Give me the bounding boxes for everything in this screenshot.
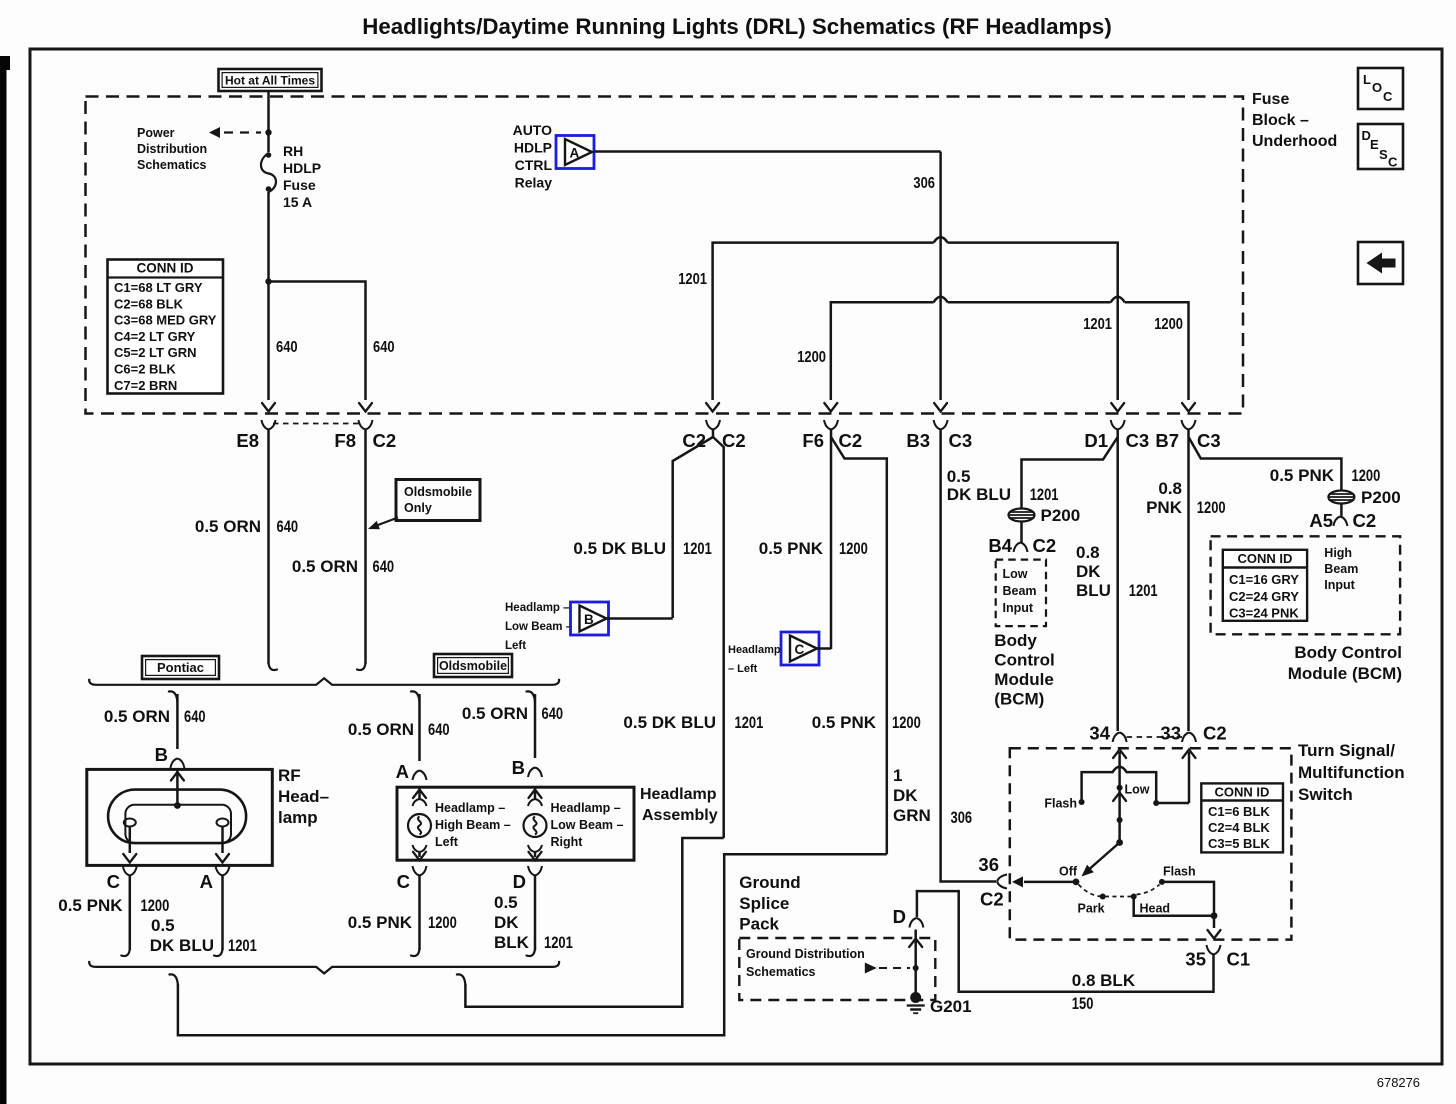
svg-text:0.5 ORN: 0.5 ORN bbox=[462, 704, 528, 723]
svg-text:1201: 1201 bbox=[1129, 581, 1158, 600]
svg-text:Power: Power bbox=[137, 126, 175, 140]
splice P200 right bbox=[1328, 491, 1354, 504]
svg-text:0.8: 0.8 bbox=[1076, 543, 1100, 562]
svg-text:S: S bbox=[1379, 147, 1388, 162]
wire bus to B RF bbox=[169, 691, 178, 749]
arrow up pin 33 bbox=[1183, 750, 1196, 759]
RF headlamp inner shell bbox=[125, 805, 231, 843]
arrow down RF right bbox=[216, 854, 229, 863]
RF headlamp center node bbox=[174, 802, 181, 809]
svg-text:C2=24 GRY: C2=24 GRY bbox=[1229, 589, 1299, 604]
svg-text:Head–: Head– bbox=[278, 787, 329, 806]
svg-text:678276: 678276 bbox=[1377, 1076, 1420, 1090]
Low Beam Input dashed box bbox=[996, 560, 1046, 627]
svg-text:B7: B7 bbox=[1155, 430, 1179, 451]
connector D ground bbox=[893, 906, 924, 928]
svg-text:Low Beam –: Low Beam – bbox=[551, 818, 624, 832]
svg-text:1: 1 bbox=[893, 766, 902, 785]
svg-text:PNK: PNK bbox=[1146, 498, 1183, 517]
wire F6 down to triangle C bbox=[830, 430, 833, 650]
svg-text:1200: 1200 bbox=[1197, 498, 1226, 517]
arrow into B7 bbox=[1182, 403, 1195, 412]
arrow into F6 bbox=[824, 403, 837, 412]
signal triangle B headlamp low beam left bbox=[571, 602, 609, 635]
wire 306 B3 down to turn signal switch bbox=[941, 430, 996, 882]
label 0.5 DK BLU 1201 upper bbox=[573, 539, 711, 558]
svg-text:Ground: Ground bbox=[739, 873, 800, 892]
wire F6 split right branch bbox=[831, 437, 887, 854]
wire horizontal 1201 feed bbox=[713, 243, 1118, 400]
svg-text:640: 640 bbox=[373, 557, 395, 576]
svg-text:640: 640 bbox=[373, 339, 395, 356]
svg-text:D1: D1 bbox=[1084, 430, 1108, 451]
wire D assembly to bus bbox=[527, 876, 536, 957]
BCM dashed box right bbox=[1211, 536, 1401, 634]
label 0.8 DK BLU 1201 main bbox=[1076, 543, 1158, 600]
wire A RF to bus bbox=[214, 876, 223, 957]
CONN ID table fuse block bbox=[108, 260, 224, 394]
svg-text:P200: P200 bbox=[1361, 488, 1401, 507]
svg-text:0.5 PNK: 0.5 PNK bbox=[759, 539, 824, 558]
wire D1 to BCM low beam input bbox=[1022, 430, 1118, 510]
wire branch to F8 bbox=[269, 282, 366, 401]
svg-text:1200: 1200 bbox=[839, 539, 868, 558]
svg-text:Distribution: Distribution bbox=[137, 142, 207, 156]
svg-text:Low Beam –: Low Beam – bbox=[505, 621, 573, 633]
svg-text:C2: C2 bbox=[839, 430, 863, 451]
svg-text:F6: F6 bbox=[802, 430, 824, 451]
svg-text:C1=68 LT GRY: C1=68 LT GRY bbox=[114, 280, 203, 295]
svg-text:0.5: 0.5 bbox=[151, 916, 175, 935]
hop over 306 wire lower bbox=[934, 297, 948, 303]
splice P200 left bbox=[1009, 509, 1035, 522]
svg-text:C2: C2 bbox=[980, 889, 1004, 910]
svg-text:306: 306 bbox=[913, 175, 935, 192]
ground distribution dashed arrow bbox=[865, 963, 910, 974]
svg-text:C2: C2 bbox=[722, 430, 746, 451]
RF headlamp right terminal bbox=[217, 819, 229, 827]
wiper arm to Off bbox=[1082, 843, 1120, 877]
Oldsmobile label box bbox=[434, 654, 512, 677]
svg-text:Headlamp: Headlamp bbox=[728, 644, 781, 656]
connector B4 C2 bbox=[988, 535, 1056, 556]
svg-text:HDLP: HDLP bbox=[514, 140, 552, 156]
svg-text:Headlamp –: Headlamp – bbox=[435, 801, 505, 815]
ground G201 symbol bbox=[907, 992, 925, 1013]
connector D assembly bbox=[513, 866, 542, 892]
svg-text:Only: Only bbox=[404, 501, 432, 515]
low contact dot bbox=[1117, 785, 1123, 791]
label 0.5 PNK 1200 assembly bbox=[348, 913, 457, 932]
svg-text:Headlamp: Headlamp bbox=[640, 786, 717, 803]
svg-text:35: 35 bbox=[1185, 949, 1206, 970]
svg-text:0.5 ORN: 0.5 ORN bbox=[195, 517, 261, 536]
svg-text:Turn Signal/: Turn Signal/ bbox=[1298, 741, 1395, 760]
svg-text:A: A bbox=[200, 871, 213, 892]
svg-text:F8: F8 bbox=[334, 430, 356, 451]
svg-text:HDLP: HDLP bbox=[283, 160, 321, 176]
svg-text:L: L bbox=[1363, 72, 1371, 87]
svg-text:B: B bbox=[155, 744, 168, 765]
arrow down pin 35 bbox=[1208, 930, 1221, 939]
label Body Control Module left bbox=[994, 631, 1054, 709]
wire bus to B assembly bbox=[527, 691, 536, 758]
back arrow box icon bbox=[1358, 242, 1403, 284]
splice junction dot bbox=[913, 965, 919, 971]
CONN ID table BCM bbox=[1223, 550, 1307, 621]
relay triangle A bbox=[556, 136, 594, 169]
svg-text:Ground Distribution: Ground Distribution bbox=[746, 947, 865, 961]
svg-text:A5: A5 bbox=[1309, 510, 1333, 531]
Hot at All Times label box bbox=[219, 69, 322, 91]
svg-text:15 A: 15 A bbox=[283, 194, 312, 210]
connector A RF bbox=[200, 866, 230, 892]
bottom bus brace bbox=[89, 961, 559, 974]
svg-text:C3: C3 bbox=[949, 430, 973, 451]
off contact dot bbox=[1073, 879, 1080, 886]
label Fuse Block - Underhood bbox=[1252, 91, 1337, 150]
wire horizontal 1200 feed bbox=[831, 302, 1189, 400]
svg-text:Hot at All Times: Hot at All Times bbox=[225, 74, 315, 88]
bulb headlamp high beam left bbox=[418, 787, 421, 800]
wire P200 to B4 bbox=[1020, 521, 1023, 542]
svg-text:306: 306 bbox=[951, 808, 973, 827]
arrow into D1 bbox=[1111, 403, 1124, 412]
label 1 DK GRN bbox=[893, 766, 931, 825]
contact dot right bbox=[1153, 800, 1159, 806]
Pontiac label box bbox=[142, 656, 219, 679]
LOC box icon bbox=[1358, 68, 1403, 109]
svg-text:Beam: Beam bbox=[1003, 584, 1037, 598]
label 0.8 PNK 1200 main bbox=[1146, 479, 1226, 517]
CONN ID table switch bbox=[1201, 783, 1283, 852]
svg-text:CONN ID: CONN ID bbox=[1215, 785, 1270, 800]
svg-text:Underhood: Underhood bbox=[1252, 133, 1337, 150]
wire flash to junction bbox=[1162, 882, 1214, 928]
wire E8 to Pontiac bus bbox=[267, 430, 270, 665]
svg-text:Off: Off bbox=[1059, 865, 1078, 879]
curl E8 end bbox=[269, 663, 278, 670]
label RF Head-lamp bbox=[278, 766, 329, 827]
wire head to junction bbox=[1134, 897, 1214, 916]
wire C assembly to bus bbox=[411, 876, 420, 957]
ground splice pack dashed box bbox=[739, 938, 935, 1000]
svg-text:C1: C1 bbox=[1227, 949, 1251, 970]
svg-text:C2: C2 bbox=[1353, 510, 1377, 531]
svg-text:Pack: Pack bbox=[739, 915, 779, 934]
label 0.5 DK BLU 1201 RF bbox=[150, 916, 257, 955]
svg-text:– Left: – Left bbox=[728, 663, 758, 675]
connector F6 C2 bbox=[802, 420, 862, 451]
svg-text:D: D bbox=[893, 906, 906, 927]
wire D1 main down to pin 34 bbox=[1116, 437, 1119, 731]
label 0.5 PNK 1200 upper bbox=[759, 539, 868, 558]
svg-text:BLU: BLU bbox=[1076, 581, 1111, 600]
svg-text:1200: 1200 bbox=[892, 713, 921, 732]
svg-text:O: O bbox=[1372, 80, 1382, 95]
arrow up pin 34 bbox=[1113, 750, 1126, 759]
connector A assembly bbox=[396, 761, 427, 782]
connector 36 fork bbox=[997, 875, 1007, 889]
svg-text:(BCM): (BCM) bbox=[994, 690, 1044, 709]
connector D1 C3 bbox=[1084, 420, 1149, 451]
label 0.5 ORN 640 F8 bbox=[292, 557, 394, 576]
svg-text:C7=2 BRN: C7=2 BRN bbox=[114, 378, 177, 393]
svg-text:640: 640 bbox=[542, 704, 564, 723]
connector pin 33 bbox=[1160, 723, 1226, 744]
flash contact dot left bbox=[1079, 799, 1085, 805]
label 0.5 PNK 1200 RF bbox=[58, 896, 169, 915]
svg-text:Headlamp –: Headlamp – bbox=[551, 801, 621, 815]
svg-text:GRN: GRN bbox=[893, 806, 931, 825]
wire P200 to A5 bbox=[1340, 503, 1343, 516]
svg-text:D: D bbox=[513, 871, 526, 892]
wire 0.5 DK BLU return to oldsmobile bus bbox=[457, 838, 724, 1007]
label Turn Signal Multifunction Switch bbox=[1298, 741, 1405, 804]
arrow left into 36 bbox=[1012, 876, 1023, 887]
fuse block underhood dashed box bbox=[86, 97, 1244, 414]
svg-text:C: C bbox=[107, 871, 120, 892]
label 0.5 DK BLU 1201 return bbox=[623, 713, 763, 732]
svg-text:0.5 PNK: 0.5 PNK bbox=[348, 913, 413, 932]
svg-text:Input: Input bbox=[1003, 601, 1034, 615]
svg-text:DK BLU: DK BLU bbox=[947, 485, 1011, 504]
svg-text:Block –: Block – bbox=[1252, 112, 1309, 129]
RF headlamp outer shell bbox=[108, 790, 246, 844]
label 0.5 DK BLU 1201 bcm bbox=[947, 467, 1059, 504]
label 0.5 PNK 1200 return bbox=[812, 713, 921, 732]
svg-text:C2: C2 bbox=[373, 430, 397, 451]
scan edge black strip bbox=[0, 56, 7, 1104]
svg-text:640: 640 bbox=[276, 339, 298, 356]
switch bail wire bbox=[1082, 767, 1189, 803]
RF headlamp left terminal bbox=[124, 819, 136, 827]
Oldsmobile Only arrow bbox=[368, 518, 398, 530]
connector B assembly bbox=[512, 757, 542, 778]
svg-text:1201: 1201 bbox=[1030, 485, 1059, 504]
label 0.5 ORN 640 B assembly bbox=[462, 704, 563, 723]
arrow into C2 bbox=[706, 403, 719, 412]
wire relay to 306 vertical bbox=[594, 150, 941, 153]
svg-text:E: E bbox=[1370, 137, 1379, 152]
wire B7 to BCM high beam input bbox=[1189, 430, 1342, 492]
top bus brace bbox=[89, 678, 559, 685]
label Ground Splice Pack bbox=[739, 873, 800, 934]
svg-text:0.5 PNK: 0.5 PNK bbox=[1270, 466, 1335, 485]
svg-text:1201: 1201 bbox=[1083, 316, 1112, 333]
svg-text:A: A bbox=[396, 761, 409, 782]
wire pin34 to wiper pivot bbox=[1118, 752, 1121, 843]
svg-text:Control: Control bbox=[994, 651, 1054, 670]
label 0.5 PNK 1200 bcm bbox=[1270, 466, 1381, 485]
Oldsmobile Only callout box bbox=[396, 480, 480, 521]
svg-text:A: A bbox=[570, 146, 580, 161]
svg-text:Switch: Switch bbox=[1298, 785, 1353, 804]
wire D into splice pack bbox=[914, 930, 917, 996]
svg-text:1201: 1201 bbox=[678, 271, 707, 288]
svg-text:0.8: 0.8 bbox=[1158, 479, 1182, 498]
svg-text:1200: 1200 bbox=[1154, 316, 1183, 333]
svg-text:Flash: Flash bbox=[1163, 865, 1196, 879]
wiper pivot dot bbox=[1116, 839, 1123, 846]
wire hot feed top bbox=[267, 91, 270, 152]
svg-text:C: C bbox=[397, 871, 410, 892]
svg-text:Schematics: Schematics bbox=[137, 158, 207, 172]
svg-text:Schematics: Schematics bbox=[746, 965, 816, 979]
svg-text:Park: Park bbox=[1078, 902, 1105, 916]
svg-text:Input: Input bbox=[1324, 578, 1355, 592]
svg-text:Oldsmobile: Oldsmobile bbox=[439, 659, 507, 673]
wire triangle C stub bbox=[816, 647, 832, 650]
wire F8 to Oldsmobile bus bbox=[364, 430, 367, 665]
label Body Control Module BCM right bbox=[1288, 643, 1402, 683]
svg-text:Headlights/Daytime Running Lig: Headlights/Daytime Running Lights (DRL) … bbox=[362, 14, 1112, 39]
wire pin33 down bbox=[1188, 752, 1191, 803]
fuse RH HDLP 15A symbol bbox=[261, 153, 276, 192]
svg-text:Oldsmobile: Oldsmobile bbox=[404, 485, 472, 499]
wiper mid dot bbox=[1117, 817, 1123, 823]
svg-text:640: 640 bbox=[428, 720, 450, 739]
label RH HDLP Fuse 15 A bbox=[283, 143, 321, 210]
arrow up into RF headlamp bbox=[171, 772, 184, 781]
arrow down RF left bbox=[123, 854, 136, 863]
wire C2 split left branch bbox=[673, 430, 713, 619]
svg-text:36: 36 bbox=[978, 854, 999, 875]
svg-text:640: 640 bbox=[184, 707, 206, 726]
svg-text:1200: 1200 bbox=[1352, 466, 1381, 485]
connector B RF bbox=[155, 744, 185, 768]
svg-text:DK BLU: DK BLU bbox=[150, 936, 214, 955]
label High Beam Input bbox=[1324, 546, 1358, 592]
svg-text:33: 33 bbox=[1160, 723, 1181, 744]
svg-text:Multifunction: Multifunction bbox=[1298, 763, 1405, 782]
svg-text:Fuse: Fuse bbox=[1252, 91, 1289, 108]
detent dashed arc bbox=[1079, 885, 1160, 897]
DESC box icon bbox=[1358, 124, 1403, 170]
svg-text:B3: B3 bbox=[906, 430, 930, 451]
svg-text:AUTO: AUTO bbox=[513, 122, 553, 138]
label Power Distribution Schematics bbox=[137, 126, 207, 172]
svg-text:C: C bbox=[1388, 155, 1398, 170]
svg-text:C: C bbox=[1383, 89, 1393, 104]
park contact dot bbox=[1100, 894, 1106, 900]
connector C assembly bbox=[397, 866, 427, 892]
curl F8 end bbox=[357, 663, 366, 670]
connector E8 bbox=[236, 420, 275, 451]
svg-text:P200: P200 bbox=[1041, 506, 1081, 525]
svg-text:0.5: 0.5 bbox=[947, 467, 971, 486]
svg-text:Splice: Splice bbox=[739, 894, 789, 913]
wire 0.8 BLK ground path bbox=[917, 891, 1214, 992]
wire into RF headlamp bbox=[176, 770, 179, 806]
svg-text:C2: C2 bbox=[1203, 723, 1227, 744]
svg-text:C1=6 BLK: C1=6 BLK bbox=[1208, 804, 1270, 819]
svg-text:C3: C3 bbox=[1126, 430, 1150, 451]
svg-text:0.5 ORN: 0.5 ORN bbox=[104, 707, 170, 726]
svg-text:C: C bbox=[795, 642, 805, 657]
label Low Beam Input bbox=[1003, 567, 1037, 615]
connector pin 34 bbox=[1089, 723, 1126, 744]
connector C RF bbox=[107, 866, 137, 892]
connector B7 C3 bbox=[1155, 420, 1220, 451]
svg-text:640: 640 bbox=[277, 517, 299, 536]
svg-text:0.5 PNK: 0.5 PNK bbox=[58, 896, 123, 915]
svg-text:1200: 1200 bbox=[797, 349, 826, 366]
svg-text:34: 34 bbox=[1089, 723, 1110, 744]
flash contact dot right bbox=[1159, 879, 1165, 885]
label 0.5 ORN 640 B RF bbox=[104, 707, 206, 726]
connector A5 C2 bbox=[1309, 510, 1376, 531]
svg-text:1200: 1200 bbox=[428, 913, 457, 932]
svg-text:1201: 1201 bbox=[735, 713, 764, 732]
svg-text:C5=2 LT GRN: C5=2 LT GRN bbox=[114, 345, 196, 360]
svg-text:0.5 DK BLU: 0.5 DK BLU bbox=[623, 713, 716, 732]
wiper up arrow bbox=[1113, 793, 1126, 802]
wire RF left terminal down bbox=[129, 827, 132, 854]
svg-text:E8: E8 bbox=[236, 430, 259, 451]
dashed connector link E8-F8 bbox=[273, 423, 360, 425]
svg-text:Module (BCM): Module (BCM) bbox=[1288, 664, 1402, 683]
bulb headlamp low beam right bbox=[534, 787, 537, 800]
svg-text:0.8 BLK: 0.8 BLK bbox=[1072, 971, 1136, 990]
connector F8 C2 bbox=[334, 420, 396, 451]
svg-text:lamp: lamp bbox=[278, 808, 318, 827]
svg-text:0.5 ORN: 0.5 ORN bbox=[292, 557, 358, 576]
svg-text:0.5 DK BLU: 0.5 DK BLU bbox=[573, 539, 666, 558]
arrow into B3 bbox=[934, 403, 947, 412]
wire bus to A assembly bbox=[411, 691, 420, 761]
wire 306 vertical in fuse block bbox=[939, 152, 942, 401]
svg-text:Right: Right bbox=[551, 835, 584, 849]
svg-text:0.5: 0.5 bbox=[494, 893, 518, 912]
svg-text:B4: B4 bbox=[988, 535, 1012, 556]
svg-text:C1=16 GRY: C1=16 GRY bbox=[1229, 572, 1299, 587]
connector B3 C3 bbox=[906, 420, 972, 451]
label 0.5 ORN 640 A assembly bbox=[348, 720, 450, 739]
svg-text:RH: RH bbox=[283, 143, 303, 159]
wire fuse down to E8 bbox=[267, 192, 270, 400]
svg-text:Flash: Flash bbox=[1044, 797, 1077, 811]
svg-text:High Beam –: High Beam – bbox=[435, 818, 511, 832]
svg-text:Low: Low bbox=[1125, 783, 1150, 797]
svg-text:Assembly: Assembly bbox=[642, 807, 718, 824]
wire C RF to bus bbox=[121, 876, 130, 957]
connector pin 35 C1 bbox=[1185, 945, 1250, 970]
svg-text:1201: 1201 bbox=[228, 936, 257, 955]
svg-text:C4=2 LT GRY: C4=2 LT GRY bbox=[114, 329, 196, 344]
svg-text:Headlamp –: Headlamp – bbox=[505, 602, 570, 614]
label 0.5 ORN 640 E8 bbox=[195, 517, 298, 536]
svg-text:Left: Left bbox=[435, 835, 459, 849]
hop over 306 wire upper bbox=[934, 237, 948, 243]
arrow into F8 bbox=[359, 403, 372, 412]
svg-text:Body: Body bbox=[994, 631, 1037, 650]
label Headlamp Low Beam Left bbox=[505, 602, 573, 652]
wire 0.5 PNK return to pontiac bus bbox=[169, 854, 886, 1035]
svg-text:C3=68 MED GRY: C3=68 MED GRY bbox=[114, 313, 217, 328]
svg-text:Beam: Beam bbox=[1324, 562, 1358, 576]
svg-text:1200: 1200 bbox=[141, 896, 170, 915]
svg-text:C3=5 BLK: C3=5 BLK bbox=[1208, 836, 1270, 851]
svg-text:BLK: BLK bbox=[494, 933, 530, 952]
svg-text:C3: C3 bbox=[1197, 430, 1221, 451]
svg-text:Left: Left bbox=[505, 640, 526, 652]
wire triangle B to vertical bbox=[605, 617, 673, 620]
svg-text:B: B bbox=[584, 612, 594, 627]
dashed connector link 34-33 bbox=[1127, 736, 1182, 738]
svg-text:0.5 ORN: 0.5 ORN bbox=[348, 720, 414, 739]
svg-text:RF: RF bbox=[278, 766, 301, 785]
